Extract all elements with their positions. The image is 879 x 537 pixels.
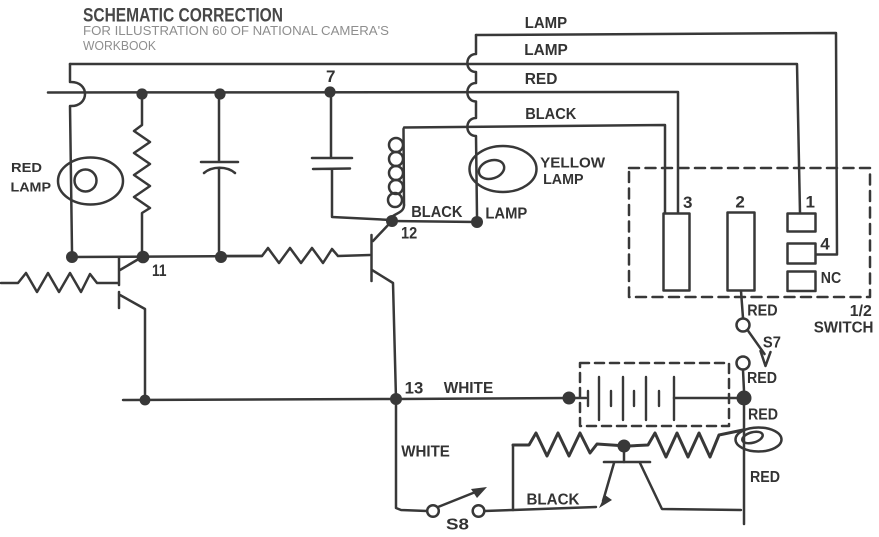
svg-text:SWITCH: SWITCH — [814, 320, 874, 337]
node dot white left — [140, 395, 151, 406]
lamp DS2 YELLOW LAMP — [470, 146, 537, 192]
svg-text:12: 12 — [401, 225, 417, 243]
svg-text:RED: RED — [11, 160, 42, 175]
node battery left — [563, 392, 576, 405]
wire switch2 to S7 — [741, 291, 743, 318]
svg-text:RED: RED — [750, 469, 780, 486]
wire BLACK: coil top corner to switch 3 drop — [404, 125, 665, 213]
capacitor C1 (polarized) — [201, 94, 238, 257]
svg-text:1: 1 — [806, 193, 815, 212]
transistor Q1 — [118, 258, 121, 308]
svg-text:7: 7 — [326, 67, 335, 86]
svg-text:11: 11 — [152, 262, 167, 280]
resistor R1 vertical — [134, 94, 150, 257]
svg-text:LAMP: LAMP — [524, 42, 568, 59]
transistor Q3 — [623, 448, 626, 462]
battery BT1 cells — [569, 397, 586, 400]
resistor R2 middle horizontal — [221, 248, 370, 263]
wire WHITE row node 13 — [123, 398, 569, 400]
svg-text:RED: RED — [747, 370, 777, 387]
resistor R3 far-left horizontal — [1, 273, 118, 292]
wire LAMP1 top: corner at yellow-lamp drop, right to far right, down to switch 4 stub — [476, 33, 837, 255]
svg-text:13: 13 — [405, 380, 424, 398]
svg-text:S7: S7 — [763, 335, 781, 352]
switch contact 4 — [788, 244, 816, 264]
svg-text:RED: RED — [748, 407, 778, 424]
switch S8 — [427, 505, 439, 517]
switch contact NC — [788, 272, 816, 292]
node 11 — [137, 251, 150, 264]
node dot rail2 left — [136, 88, 147, 99]
lamp DS1 RED LAMP — [58, 158, 123, 205]
svg-text:3: 3 — [683, 193, 692, 212]
battery BT1 dashed box — [580, 363, 729, 426]
svg-text:S8: S8 — [446, 517, 469, 534]
switch contact 1 — [788, 214, 816, 232]
node 13 — [390, 393, 402, 405]
svg-text:YELLOW: YELLOW — [540, 155, 606, 172]
inductor L1 coil — [402, 129, 405, 205]
svg-text:BLACK: BLACK — [527, 492, 580, 509]
wire node 13 down to S8 — [396, 399, 427, 511]
svg-text:RED: RED — [525, 71, 558, 88]
wire bottom rail (node 11 row) — [72, 256, 262, 257]
svg-text:NC: NC — [821, 270, 842, 287]
wire vertical with hops through yellow lamp (x=476) — [467, 35, 477, 216]
lamp DS3 small right — [736, 428, 782, 452]
node dot bottom rail cap1 — [215, 251, 227, 263]
svg-text:4: 4 — [820, 235, 830, 254]
svg-text:LAMP: LAMP — [485, 206, 527, 223]
node big dot right — [737, 391, 752, 406]
resistor R5 bottom-right horizontal (thick) — [629, 430, 743, 457]
node dot rail2 cap1 — [214, 88, 225, 99]
svg-text:RED: RED — [747, 303, 777, 320]
switch S7 — [737, 319, 750, 332]
wire BLACK bottom from S8 to Q3 emitter — [485, 507, 597, 511]
svg-text:1/2: 1/2 — [850, 303, 872, 320]
svg-text:BLACK: BLACK — [411, 204, 463, 221]
node 7 — [324, 86, 335, 97]
wire right vertical RED — [743, 398, 746, 524]
resistor R4 bottom-left horizontal (thick) — [513, 433, 619, 456]
node dot bottom rail left — [66, 251, 78, 263]
wire node 12 to lamp node — [392, 221, 477, 222]
svg-text:2: 2 — [735, 193, 744, 212]
node R4/R5 junction — [618, 440, 631, 453]
svg-text:BLACK: BLACK — [525, 106, 576, 123]
svg-text:WORKBOOK: WORKBOOK — [83, 38, 156, 53]
wire LAMP2 rail: left circuit top rail to switch 1 drop — [70, 64, 800, 213]
wire RED rail: second rail to switch 3 drop — [48, 92, 678, 213]
svg-text:LAMP: LAMP — [543, 171, 583, 188]
wire left vertical with right hop through red lamp (x=70) — [70, 64, 85, 251]
svg-text:WHITE: WHITE — [401, 444, 450, 461]
capacitor C2 — [312, 92, 391, 220]
switch contact 3 — [664, 214, 690, 291]
switch block dashed box — [629, 168, 870, 297]
svg-text:WHITE: WHITE — [444, 380, 494, 397]
svg-text:LAMP: LAMP — [11, 180, 52, 195]
node 12 — [386, 215, 398, 227]
node lamp — [471, 216, 483, 228]
svg-text:LAMP: LAMP — [525, 15, 568, 32]
svg-text:FOR ILLUSTRATION 60 OF NATIONA: FOR ILLUSTRATION 60 OF NATIONAL CAMERA'S — [83, 23, 389, 38]
transistor Q2 — [370, 235, 373, 281]
switch contact 2 — [728, 213, 755, 291]
wire up from bottom wire to R4 — [512, 445, 515, 510]
